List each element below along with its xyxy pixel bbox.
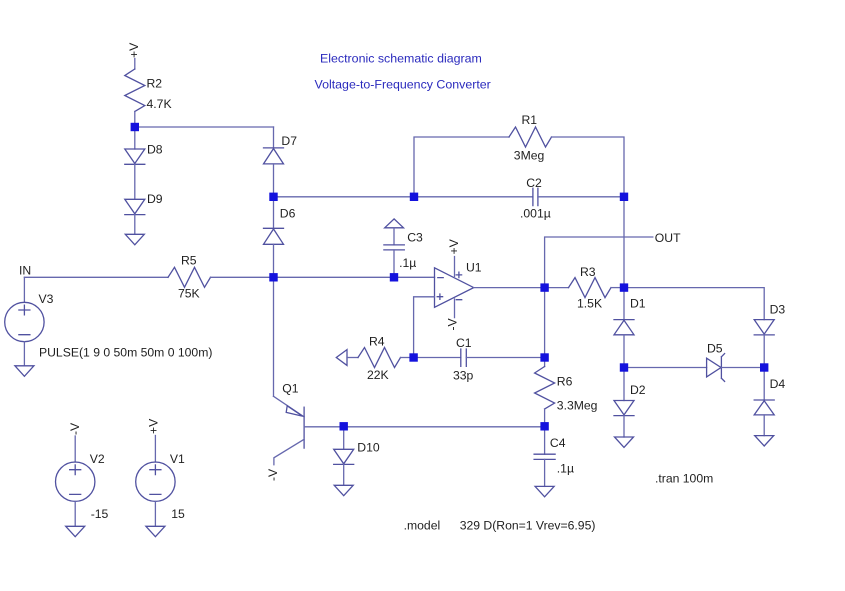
terminal arrow (R4 left) <box>336 350 347 366</box>
svg-text:D1: D1 <box>630 297 646 311</box>
svg-text:Voltage-to-Frequency Converter: Voltage-to-Frequency Converter <box>315 78 491 92</box>
op-amp U1 <box>435 257 482 318</box>
junction <box>409 353 417 361</box>
ground <box>334 485 353 495</box>
diode D6 <box>264 197 296 277</box>
svg-text:+V: +V <box>127 42 141 58</box>
diode D7 <box>264 134 298 197</box>
svg-text:D10: D10 <box>357 441 380 455</box>
svg-text:D2: D2 <box>630 383 646 397</box>
svg-text:.model: .model <box>404 519 441 533</box>
wire <box>24 276 168 278</box>
wire <box>273 277 275 396</box>
svg-text:75K: 75K <box>178 287 200 301</box>
junction <box>540 283 548 291</box>
junction <box>760 363 768 371</box>
ground <box>615 437 634 447</box>
svg-text:IN: IN <box>19 264 31 278</box>
resistor R6 <box>535 358 598 427</box>
svg-text:V2: V2 <box>90 452 105 466</box>
svg-text:V1: V1 <box>170 452 185 466</box>
resistor R2 <box>125 69 172 127</box>
svg-text:R1: R1 <box>522 113 538 127</box>
diode D3 <box>754 303 785 368</box>
svg-text:D7: D7 <box>281 134 297 148</box>
svg-text:U1: U1 <box>466 261 482 275</box>
resistor R4 <box>347 335 414 383</box>
svg-text:C4: C4 <box>550 436 566 450</box>
ground <box>146 526 165 536</box>
wire <box>304 426 544 428</box>
svg-text:4.7K: 4.7K <box>147 97 172 111</box>
node OUT <box>545 231 681 288</box>
svg-text:R3: R3 <box>580 265 596 279</box>
ground <box>755 436 774 446</box>
junction <box>620 193 628 201</box>
diode D8 <box>125 127 163 199</box>
wire <box>135 126 274 128</box>
junction <box>340 422 348 430</box>
svg-text:+V: +V <box>147 418 161 434</box>
svg-text:-15: -15 <box>91 507 109 521</box>
svg-text:3Meg: 3Meg <box>514 149 545 163</box>
wire <box>414 137 509 197</box>
svg-text:.tran 100m: .tran 100m <box>655 472 713 486</box>
svg-text:Q1: Q1 <box>282 382 298 396</box>
junction <box>269 193 277 201</box>
capacitor C4 <box>534 426 574 486</box>
wire <box>544 288 546 358</box>
junction <box>131 123 139 131</box>
ground <box>535 486 554 496</box>
svg-text:PULSE(1 9 0 50m 50m 0 100m): PULSE(1 9 0 50m 50m 0 100m) <box>39 346 212 360</box>
capacitor C1 <box>414 336 545 383</box>
svg-text:R5: R5 <box>181 254 197 268</box>
svg-text:-V: -V <box>68 422 82 435</box>
ground <box>15 366 34 377</box>
diode D5 <box>624 342 764 382</box>
svg-text:D4: D4 <box>770 377 786 391</box>
junction <box>540 422 548 430</box>
svg-text:1.5K: 1.5K <box>577 297 602 311</box>
svg-text:3.3Meg: 3.3Meg <box>557 399 598 413</box>
svg-text:-V: -V <box>446 317 460 330</box>
wire <box>414 297 435 358</box>
ground <box>125 234 144 245</box>
wire <box>273 127 275 148</box>
svg-text:15: 15 <box>171 507 185 521</box>
wire <box>211 276 435 278</box>
svg-text:V3: V3 <box>39 292 54 306</box>
svg-text:+V: +V <box>447 238 461 254</box>
diode D10 <box>334 426 380 485</box>
junction <box>620 363 628 371</box>
svg-text:.1µ: .1µ <box>399 256 416 270</box>
diode D9 <box>125 192 163 234</box>
svg-text:D5: D5 <box>707 342 723 356</box>
voltage source V2 <box>55 436 108 526</box>
wire <box>624 288 764 320</box>
svg-text:-V: -V <box>266 468 280 481</box>
svg-text:.001µ: .001µ <box>520 207 551 221</box>
wire <box>274 196 415 198</box>
capacitor C2 <box>414 176 624 221</box>
diode D1 <box>614 288 646 368</box>
wire <box>623 197 625 288</box>
junction <box>390 273 398 281</box>
junction <box>540 353 548 361</box>
diode D2 <box>614 368 646 438</box>
wire <box>552 137 625 197</box>
svg-text:C2: C2 <box>526 176 542 190</box>
svg-text:R4: R4 <box>369 335 385 349</box>
wire <box>474 287 545 289</box>
svg-text:OUT: OUT <box>655 231 681 245</box>
transistor Q1 <box>274 382 305 465</box>
svg-text:Electronic schematic diagram: Electronic schematic diagram <box>320 52 482 66</box>
svg-text:C1: C1 <box>456 336 472 350</box>
wire <box>134 59 136 70</box>
voltage source V3 <box>5 277 213 366</box>
svg-text:R6: R6 <box>557 375 573 389</box>
capacitor C3 <box>384 219 423 277</box>
junction <box>620 283 628 291</box>
svg-text:R2: R2 <box>147 77 163 91</box>
svg-text:D8: D8 <box>147 143 163 157</box>
junction <box>269 273 277 281</box>
svg-text:D3: D3 <box>770 303 786 317</box>
junction <box>410 193 418 201</box>
svg-text:329 D(Ron=1 Vrev=6.95): 329 D(Ron=1 Vrev=6.95) <box>460 519 596 533</box>
svg-text:33p: 33p <box>453 369 474 383</box>
resistor R5 <box>168 254 211 301</box>
svg-text:D6: D6 <box>280 207 296 221</box>
resistor R1 <box>509 113 552 163</box>
svg-text:C3: C3 <box>407 230 423 244</box>
diode D4 <box>754 368 785 436</box>
ground <box>66 526 85 536</box>
svg-text:D9: D9 <box>147 192 163 206</box>
resistor R3 <box>545 265 624 311</box>
svg-text:.1µ: .1µ <box>557 462 574 476</box>
svg-text:22K: 22K <box>367 368 389 382</box>
voltage source V1 <box>136 436 185 527</box>
